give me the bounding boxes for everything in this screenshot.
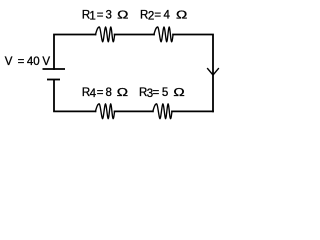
resistor R2 <box>154 27 173 42</box>
current arrow <box>208 69 219 75</box>
label V = 40 V <box>5 56 51 68</box>
label R1 = 3 ohm <box>82 8 129 22</box>
svg-text:=: = <box>97 87 104 99</box>
svg-text:Ω: Ω <box>176 8 188 21</box>
resistor R3 <box>153 104 172 119</box>
wire <box>173 35 213 112</box>
svg-text:5: 5 <box>162 87 168 99</box>
svg-text:3: 3 <box>106 9 112 21</box>
svg-text:4: 4 <box>164 9 171 21</box>
svg-text:=: = <box>97 9 104 21</box>
svg-text:1: 1 <box>89 11 95 23</box>
label R4 = 8 ohm <box>82 86 128 100</box>
label R3 = 5 ohm <box>139 86 185 100</box>
wire <box>172 110 213 112</box>
wire <box>115 110 153 112</box>
battery V1 negative plate <box>47 79 60 81</box>
battery V1 positive plate <box>43 68 66 70</box>
svg-text:Ω: Ω <box>173 86 185 99</box>
resistor R4 <box>95 104 114 119</box>
svg-text:=: = <box>18 56 25 68</box>
svg-text:Ω: Ω <box>117 8 129 21</box>
resistor R1 <box>96 27 115 42</box>
svg-text:2: 2 <box>148 11 154 23</box>
svg-text:=: = <box>153 87 160 99</box>
wire <box>54 35 96 70</box>
label R2 = 4 ohm <box>140 8 187 22</box>
svg-text:4: 4 <box>90 88 97 100</box>
svg-text:Ω: Ω <box>117 86 129 99</box>
svg-text:8: 8 <box>106 87 112 99</box>
svg-text:=: = <box>154 9 161 21</box>
wire <box>54 80 96 111</box>
wire <box>115 34 154 36</box>
svg-text:40: 40 <box>27 56 40 68</box>
svg-text:V: V <box>5 56 13 68</box>
svg-text:V: V <box>42 56 50 68</box>
